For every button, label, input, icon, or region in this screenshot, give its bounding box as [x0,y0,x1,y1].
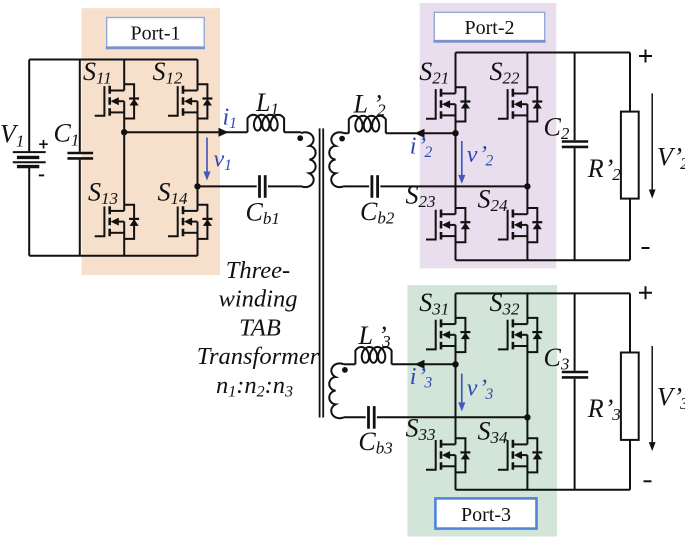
svg-text:Cb2: Cb2 [360,197,395,227]
svg-text:Port-3: Port-3 [461,504,511,526]
svg-text:R’2: R’2 [587,154,622,184]
svg-text:L’2: L’2 [353,90,387,120]
svg-text:L’3: L’3 [358,321,391,351]
svg-text:V’2: V’2 [657,143,685,173]
svg-text:R’3: R’3 [587,394,621,424]
svg-text:Three-: Three- [226,257,290,284]
svg-text:Port-1: Port-1 [131,23,181,45]
svg-text:TAB: TAB [239,314,281,341]
svg-text:winding: winding [219,286,298,313]
svg-text:v1: v1 [214,147,232,175]
svg-text:Cb3: Cb3 [358,427,392,457]
svg-text:V1: V1 [0,120,24,151]
svg-text:V’3: V’3 [657,383,685,413]
svg-text:L1: L1 [255,88,279,118]
svg-text:C2: C2 [544,112,570,142]
svg-text:C1: C1 [54,119,80,150]
svg-text:i1: i1 [223,105,237,133]
svg-text:C3: C3 [544,343,570,373]
svg-text:Transformer: Transformer [197,343,320,370]
svg-text:n1:n2:n3: n1:n2:n3 [216,372,293,401]
svg-text:Port-2: Port-2 [465,17,515,39]
svg-text:Cb1: Cb1 [246,197,280,227]
